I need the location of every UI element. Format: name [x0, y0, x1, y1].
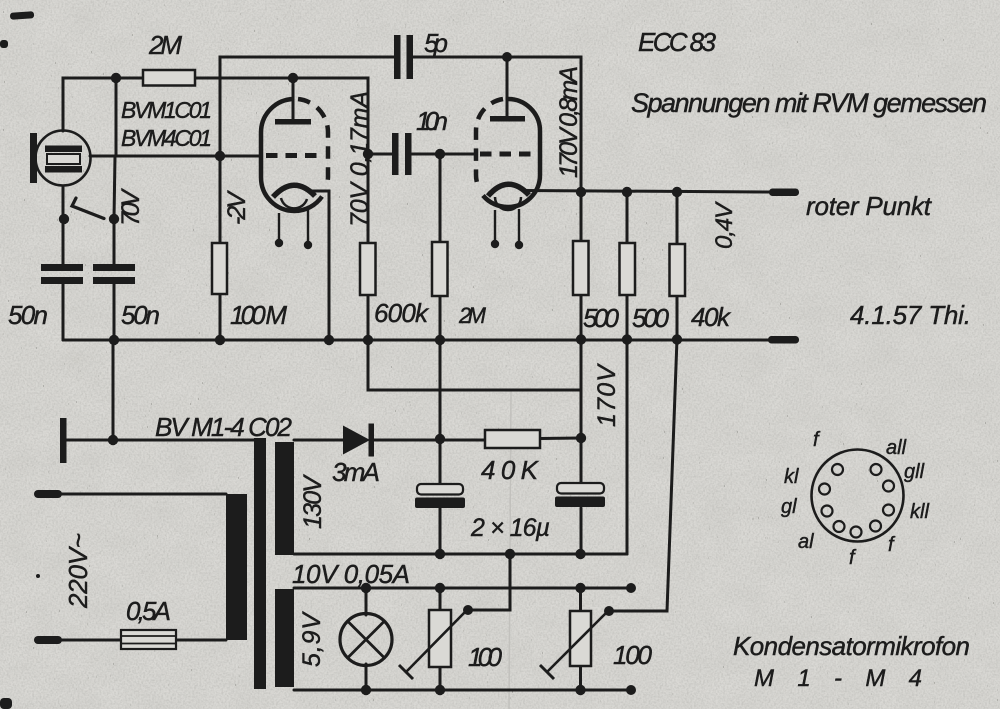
svg-text:220V~: 220V~ [63, 533, 93, 609]
svg-text:70V 0,17mA: 70V 0,17mA [346, 91, 374, 227]
svg-text:500: 500 [583, 303, 620, 333]
svg-text:10V 0,05A: 10V 0,05A [292, 559, 410, 589]
svg-text:0,5A: 0,5A [126, 596, 171, 626]
svg-text:10n: 10n [416, 106, 448, 136]
svg-text:al: al [798, 531, 814, 553]
svg-text:gl: gl [781, 496, 797, 518]
svg-text:500: 500 [632, 303, 670, 333]
svg-text:50n: 50n [121, 300, 160, 330]
svg-text:kll: kll [910, 501, 929, 523]
svg-text:BVM1C01: BVM1C01 [121, 97, 212, 123]
svg-text:600k: 600k [374, 298, 430, 328]
svg-text:40K: 40K [481, 455, 540, 485]
svg-text:40k: 40k [691, 302, 732, 332]
svg-text:4.1.57 Thi.: 4.1.57 Thi. [850, 300, 971, 330]
svg-text:Kondensatormikrofon: Kondensatormikrofon [733, 631, 970, 661]
svg-text:2 × 16µ: 2 × 16µ [470, 514, 550, 542]
svg-text:100: 100 [468, 642, 503, 672]
svg-text:Spannungen mit RVM gemessen: Spannungen mit RVM gemessen [631, 88, 987, 118]
svg-text:100 M: 100 M [230, 300, 287, 330]
svg-text:170V: 170V [593, 363, 621, 427]
svg-text:130V: 130V [299, 474, 327, 529]
svg-text:100: 100 [613, 640, 653, 670]
svg-text:5p: 5p [424, 28, 448, 58]
svg-text:2M: 2M [148, 30, 182, 60]
svg-text:BV M1-4 C02: BV M1-4 C02 [155, 412, 293, 442]
svg-text:roter Punkt: roter Punkt [806, 191, 933, 221]
svg-text:50n: 50n [8, 300, 48, 330]
svg-text:kl: kl [784, 466, 799, 488]
svg-text:70V: 70V [117, 188, 145, 226]
svg-text:0,4V: 0,4V [711, 201, 738, 249]
svg-text:BVM4C01: BVM4C01 [121, 125, 212, 151]
svg-text:5,9V: 5,9V [298, 611, 326, 667]
svg-text:-2V: -2V [223, 190, 251, 225]
svg-text:gll: gll [904, 461, 925, 483]
svg-text:3mA: 3mA [332, 457, 380, 487]
svg-text:170V 0,8mA: 170V 0,8mA [555, 66, 583, 178]
svg-text:2M: 2M [458, 303, 487, 328]
svg-text:ECC 83: ECC 83 [638, 27, 717, 57]
svg-text:all: all [886, 437, 907, 459]
